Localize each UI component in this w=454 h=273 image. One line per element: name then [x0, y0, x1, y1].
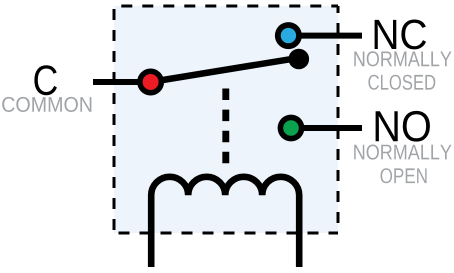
relay body dashed border: right edge	[337, 6, 340, 233]
relay body dashed border: bottom edge	[114, 232, 338, 235]
terminal NC (blue)	[275, 22, 302, 49]
label NO	[376, 111, 430, 142]
label NC	[375, 20, 426, 50]
label OPEN	[381, 168, 427, 183]
relay body fill	[114, 6, 338, 233]
label NORMALLY (open)	[354, 145, 451, 160]
label C	[34, 65, 57, 95]
wire: NC lead	[288, 33, 362, 39]
node: pivot junction	[289, 49, 310, 70]
terminal C (red)	[137, 69, 164, 96]
inductor L1 (relay coil)	[151, 177, 299, 267]
label NORMALLY (closed)	[354, 51, 451, 66]
relay body dashed border: left edge	[113, 6, 116, 233]
relay body dashed border: top edge	[114, 5, 338, 8]
wire: common lead	[93, 79, 151, 85]
label CLOSED	[368, 75, 435, 90]
wire: dotted actuator link	[222, 89, 229, 164]
label COMMON	[2, 97, 91, 112]
wire: switch arm from C to pivot	[151, 58, 299, 82]
terminal NO (green)	[278, 115, 305, 142]
wire: NO lead	[291, 125, 362, 131]
